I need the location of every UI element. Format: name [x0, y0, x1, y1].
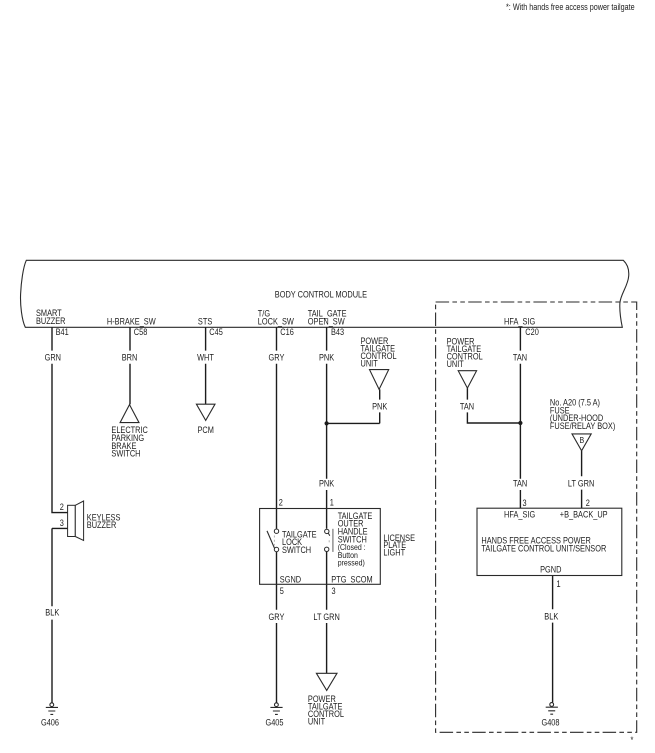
svg-text:5: 5 — [280, 586, 284, 596]
svg-text:GRY: GRY — [269, 612, 285, 622]
svg-text:1: 1 — [330, 498, 334, 508]
svg-text:LIGHT: LIGHT — [383, 548, 405, 558]
svg-text:SWITCH: SWITCH — [282, 545, 311, 555]
svg-text:BODY CONTROL MODULE: BODY CONTROL MODULE — [275, 289, 367, 299]
svg-text:OPEN_SW: OPEN_SW — [308, 316, 345, 326]
svg-text:LOCK_SW: LOCK_SW — [258, 316, 295, 326]
svg-text:STS: STS — [198, 316, 212, 326]
svg-text:HFA_SIG: HFA_SIG — [504, 316, 535, 326]
svg-text:C58: C58 — [134, 327, 148, 337]
svg-text:PTG_SCOM: PTG_SCOM — [331, 574, 372, 584]
svg-text:PNK: PNK — [372, 401, 387, 411]
svg-text:TAILGATE CONTROL UNIT/SENSOR: TAILGATE CONTROL UNIT/SENSOR — [481, 544, 606, 554]
svg-text:BRN: BRN — [122, 353, 138, 363]
svg-text:2: 2 — [279, 498, 283, 508]
svg-text:SGND: SGND — [280, 574, 302, 584]
svg-text:3: 3 — [332, 586, 336, 596]
svg-text:PGND: PGND — [540, 565, 562, 575]
svg-text:BUZZER: BUZZER — [36, 316, 66, 326]
svg-text:B: B — [580, 435, 585, 445]
svg-text:*: * — [631, 735, 634, 745]
svg-text:UNIT: UNIT — [447, 359, 465, 369]
svg-text:G408: G408 — [541, 718, 559, 728]
svg-text:GRY: GRY — [269, 353, 285, 363]
svg-text:PCM: PCM — [198, 425, 214, 435]
svg-text:PNK: PNK — [319, 478, 334, 488]
svg-text:BLK: BLK — [45, 608, 59, 618]
svg-text:pressed): pressed) — [338, 558, 365, 568]
svg-text:SWITCH: SWITCH — [111, 449, 140, 459]
svg-text:1: 1 — [557, 579, 561, 589]
svg-text:LT GRN: LT GRN — [568, 478, 594, 488]
svg-text:FUSE/RELAY BOX): FUSE/RELAY BOX) — [550, 421, 615, 431]
svg-text:G405: G405 — [265, 718, 283, 728]
svg-text:C20: C20 — [525, 327, 539, 337]
svg-text:TAN: TAN — [513, 478, 527, 488]
svg-text:C45: C45 — [209, 327, 223, 337]
svg-text:UNIT: UNIT — [308, 717, 326, 727]
svg-text:PNK: PNK — [319, 353, 334, 363]
svg-text:2: 2 — [60, 502, 64, 512]
svg-text:TAN: TAN — [460, 401, 474, 411]
svg-text:HFA_SIG: HFA_SIG — [504, 510, 535, 520]
svg-text:C16: C16 — [280, 327, 294, 337]
svg-text:2: 2 — [586, 498, 590, 508]
svg-text:TAN: TAN — [513, 353, 527, 363]
svg-text:3: 3 — [523, 498, 527, 508]
svg-text:WHT: WHT — [197, 353, 214, 363]
svg-text:+B_BACK_UP: +B_BACK_UP — [560, 510, 608, 520]
svg-text:LT GRN: LT GRN — [313, 612, 339, 622]
svg-text:H-BRAKE_SW: H-BRAKE_SW — [107, 316, 156, 326]
svg-text:*: With hands free access powe: *: With hands free access power tailgate — [506, 2, 635, 12]
svg-text:BUZZER: BUZZER — [87, 520, 117, 530]
svg-text:UNIT: UNIT — [361, 358, 379, 368]
svg-text:B43: B43 — [331, 327, 344, 337]
svg-text:3: 3 — [60, 518, 64, 528]
svg-text:B41: B41 — [56, 327, 69, 337]
svg-text:BLK: BLK — [544, 611, 558, 621]
svg-text:GRN: GRN — [45, 353, 61, 363]
svg-text:G406: G406 — [41, 717, 59, 727]
